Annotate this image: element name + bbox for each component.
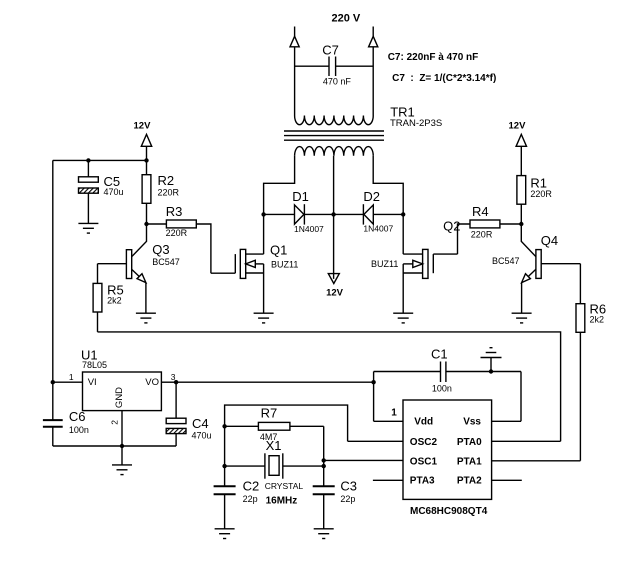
node junction dot left diode row — [261, 212, 265, 216]
wire Q1 drain up to diode row — [263, 214, 265, 254]
wire Q2 source down to ground — [402, 264, 404, 313]
node junction dot VO/Vdd — [371, 380, 375, 384]
node junction dot VO/C4 — [174, 380, 178, 384]
wire Vss pin — [492, 420, 521, 422]
svg-text:C7 : Z= 1/(C*2*3.14*f): C7 : Z= 1/(C*2*3.14*f) — [392, 73, 496, 84]
svg-text:TRAN-2P3S: TRAN-2P3S — [390, 118, 442, 129]
wire C2 bottom lead — [224, 494, 226, 529]
capacitor C6 plates — [43, 420, 63, 427]
svg-text:2k2: 2k2 — [590, 315, 605, 325]
wire Q3 emitter down — [145, 283, 147, 314]
wire secondary center tap — [333, 156, 335, 279]
svg-text:C7: C7 — [322, 43, 339, 58]
transistor Q2 channel bar — [423, 249, 428, 278]
wire Q1 gate lead — [211, 272, 235, 274]
transistor Q3 base bar — [126, 250, 131, 279]
12V down terminal arrow at center tap — [328, 274, 339, 284]
ground U1 — [112, 465, 132, 475]
svg-text:22p: 22p — [243, 494, 258, 504]
capacitor C7 — [295, 57, 374, 77]
svg-text:OSC1: OSC1 — [410, 457, 438, 468]
svg-text:1N4007: 1N4007 — [294, 224, 324, 234]
wire Vss branch vertical — [520, 372, 522, 422]
svg-text:2: 2 — [110, 420, 120, 425]
svg-text:BUZ11: BUZ11 — [371, 259, 398, 269]
node junction dot U1 pin1 — [51, 380, 55, 384]
svg-text:78L05: 78L05 — [82, 360, 107, 370]
wire Q2 source bottom stub — [403, 272, 422, 274]
wire R6 bottom to PTA1 — [579, 332, 581, 461]
diode D2 — [363, 204, 373, 224]
node junction dot X1 left — [222, 464, 226, 468]
ground C2 — [215, 529, 235, 539]
transformer TR1 secondary winding — [295, 147, 374, 156]
svg-text:OSC2: OSC2 — [410, 437, 438, 448]
wire secondary right lead — [373, 156, 403, 215]
wire R7 left stub — [225, 425, 259, 427]
wire OSC1 pin — [324, 459, 403, 461]
svg-text:16MHz: 16MHz — [266, 496, 298, 507]
svg-text:PTA2: PTA2 — [457, 476, 482, 487]
wire R4 to Q2 gate route — [458, 224, 471, 254]
wire R2 bottom stub — [146, 203, 148, 224]
wire Q1 source — [255, 263, 263, 265]
svg-text:D1: D1 — [292, 189, 309, 204]
transistor Q2 source arrow — [413, 260, 423, 267]
svg-text:12V: 12V — [509, 121, 527, 132]
svg-text:PTA1: PTA1 — [457, 457, 482, 468]
wire Vdd branch vertical — [373, 372, 375, 422]
crystal X1 — [225, 453, 324, 478]
capacitor C5 positive plate — [79, 177, 99, 182]
wire U1 pin 2 GND — [121, 411, 123, 446]
svg-text:R7: R7 — [261, 406, 278, 421]
svg-text:1N4007: 1N4007 — [363, 224, 393, 234]
wire Q4 base lead — [541, 263, 580, 265]
wire U1 pin 3 VO — [161, 381, 176, 383]
svg-text:C7: 220nF à 470 nF: C7: 220nF à 470 nF — [388, 52, 479, 63]
svg-text:C4: C4 — [192, 416, 209, 431]
transistor Q3 emitter — [132, 269, 146, 282]
svg-text:220R: 220R — [530, 189, 552, 199]
transformer TR1 core — [284, 131, 384, 140]
wire Q2 gate lead — [433, 253, 457, 255]
svg-text:C6: C6 — [69, 409, 86, 424]
svg-text:R4: R4 — [472, 204, 489, 219]
node junction dot C1 ground — [489, 369, 493, 373]
resistor R2 — [142, 175, 151, 204]
svg-text:Q1: Q1 — [270, 243, 287, 258]
wire R7 right stub — [290, 425, 324, 427]
wire bottom gnd rail — [53, 445, 176, 447]
resistor R6 — [576, 304, 585, 333]
transistor Q2 drain up to diode row — [402, 214, 404, 254]
12V left terminal arrow — [141, 134, 151, 146]
transistor Q4 emitter — [522, 269, 536, 282]
capacitor C5 negative hatched plate — [79, 188, 99, 193]
wire 220V left lead down to transformer primary — [294, 47, 296, 116]
svg-text:VI: VI — [88, 377, 97, 388]
wire secondary left lead — [264, 156, 295, 215]
wire Q2 drain stub — [403, 253, 422, 255]
ground Q3 — [136, 313, 156, 323]
transistor Q1 gate line — [234, 254, 236, 273]
transformer TR1 primary winding — [295, 116, 374, 125]
wire C5 lead bottom — [87, 193, 89, 223]
transistor Q3 collector wire — [132, 224, 147, 257]
220V left terminal arrow — [290, 36, 299, 47]
capacitor C4 top lead — [175, 382, 177, 418]
svg-text:470u: 470u — [192, 431, 212, 441]
wire Q1 drain stub — [246, 253, 264, 255]
svg-text:D2: D2 — [363, 189, 380, 204]
wire PTA2 stub — [492, 479, 522, 481]
wire R5 bottom to bus — [97, 312, 99, 332]
wire 12V left stem — [146, 146, 148, 160]
wire U1 pin 1 — [53, 381, 83, 383]
svg-text:100n: 100n — [69, 425, 89, 435]
IC U2 MC68HC908QT4 box — [403, 400, 492, 499]
node junction dot right diode row — [401, 212, 405, 216]
wire 220V left terminal stem — [294, 27, 296, 37]
node junction dot X1 right — [322, 464, 326, 468]
node junction dot R7 left — [222, 424, 226, 428]
transistor Q4 collector wire — [521, 224, 536, 257]
svg-text:12V: 12V — [134, 120, 152, 131]
capacitor C4 positive plate — [166, 418, 186, 423]
wire Q2 source — [403, 263, 413, 265]
svg-text:BC547: BC547 — [492, 256, 520, 266]
svg-text:100n: 100n — [432, 383, 452, 393]
capacitor C4 negative hatched plate — [166, 428, 186, 433]
svg-text:Q2: Q2 — [443, 219, 460, 234]
wire diode row left — [264, 213, 295, 215]
wire C3 bottom lead — [323, 494, 325, 529]
svg-text:R3: R3 — [166, 204, 183, 219]
svg-text:22p: 22p — [340, 494, 355, 504]
ground Q1 — [254, 313, 274, 323]
resistor R3 — [166, 220, 196, 228]
svg-text:Q4: Q4 — [541, 233, 558, 248]
diode D1 — [295, 204, 305, 224]
svg-text:BC547: BC547 — [152, 257, 180, 267]
resistor R1 — [517, 176, 526, 205]
wire Q4 emitter down — [521, 283, 523, 314]
svg-text:GND: GND — [114, 387, 125, 408]
capacitor C1 — [374, 362, 521, 383]
wire left rail down — [52, 160, 54, 419]
resistor R2 top stub — [146, 160, 148, 174]
svg-text:470 nF: 470 nF — [323, 76, 352, 86]
svg-text:1: 1 — [69, 372, 74, 382]
transistor Q2 gate line — [432, 254, 434, 273]
svg-text:VO: VO — [145, 377, 159, 388]
wire PTA1 — [492, 460, 581, 462]
wire D2 anode right — [373, 213, 403, 215]
svg-text:220R: 220R — [471, 230, 493, 240]
ground C3 — [314, 529, 334, 539]
wire R3 to Q1 gate route — [196, 224, 211, 273]
node junction dot GND net — [120, 444, 124, 448]
wire OSC2 pin — [348, 440, 403, 442]
svg-text:2k2: 2k2 — [107, 296, 122, 306]
wire Q1 source down to ground — [263, 264, 265, 313]
svg-text:PTA0: PTA0 — [457, 437, 482, 448]
svg-text:3: 3 — [171, 372, 176, 382]
svg-text:PTA3: PTA3 — [410, 476, 435, 487]
svg-text:C3: C3 — [340, 479, 357, 494]
wire 12V left horizontal rail — [53, 159, 147, 161]
wire OSC2 route over R7 — [225, 405, 348, 486]
wire PTA3 stub — [373, 479, 403, 481]
wire bottom bus to PTA0 — [98, 332, 561, 441]
ground Q2 — [393, 313, 413, 323]
wire C6 bottom lead — [52, 427, 54, 446]
node junction dot center tap — [331, 212, 335, 216]
12V right terminal arrow — [516, 134, 526, 146]
capacitor C2 plates — [214, 486, 236, 494]
wire Vdd pin — [374, 420, 403, 422]
ground C5 — [78, 223, 98, 233]
wire Q3 base lead — [98, 263, 127, 265]
capacitor C5 lead top — [87, 160, 89, 176]
wire Q1 source bottom stub — [246, 272, 264, 274]
wire PTA0 — [492, 440, 561, 442]
transistor Q1 channel bar — [240, 249, 245, 278]
svg-text:12V: 12V — [326, 288, 344, 299]
svg-text:C2: C2 — [243, 479, 260, 494]
transistor Q4 base bar — [536, 250, 541, 279]
node junction dot R1/R4/Q4 — [519, 222, 523, 226]
wire R3 left stub — [147, 223, 167, 225]
wire VO long to C1 — [176, 381, 374, 383]
ground inverted at C1 — [481, 348, 502, 372]
wire R7/OSC1/C3 vertical — [323, 426, 325, 486]
220V right terminal arrow — [369, 36, 378, 47]
svg-text:220R: 220R — [166, 228, 188, 238]
ground Q4 — [512, 313, 532, 323]
wire center to D2 cathode — [334, 213, 364, 215]
wire U1 ground stem — [121, 446, 123, 465]
wire R4 right stub — [500, 223, 521, 225]
wire center tap stem inside arrow — [333, 274, 335, 279]
svg-text:X1: X1 — [266, 438, 282, 453]
svg-text:CRYSTAL: CRYSTAL — [265, 481, 304, 491]
svg-text:1: 1 — [391, 407, 397, 418]
svg-text:BUZ11: BUZ11 — [271, 260, 298, 270]
node junction dot R2/R3/Q3 — [144, 222, 148, 226]
node junction dot 12V left — [144, 158, 148, 162]
transistor Q1 source arrow — [246, 260, 256, 267]
wire C4 bottom lead — [175, 434, 177, 446]
node junction dot C5 top — [86, 158, 90, 162]
svg-text:MC68HC908QT4: MC68HC908QT4 — [410, 506, 488, 517]
wire R1 bottom stub — [520, 204, 522, 224]
svg-text:220R: 220R — [158, 187, 180, 197]
svg-text:C1: C1 — [431, 346, 448, 361]
op-amp U1 regulator box — [83, 372, 162, 411]
wire D1 cathode to center — [304, 213, 333, 215]
resistor R7 — [258, 422, 290, 430]
node junction dot OSC1 — [322, 458, 326, 462]
wire R6 top stub — [579, 264, 581, 304]
svg-text:470u: 470u — [104, 187, 124, 197]
svg-text:Vss: Vss — [463, 416, 481, 427]
wire 220V right lead down to transformer primary — [372, 47, 374, 116]
wire R5 top stub — [97, 264, 99, 284]
wire 12V right stem — [520, 146, 522, 175]
capacitor C3 plates — [313, 486, 335, 494]
wire 220V right terminal stem — [372, 27, 374, 37]
resistor R5 — [93, 283, 102, 312]
svg-text:Vdd: Vdd — [414, 416, 433, 427]
svg-text:R2: R2 — [158, 173, 175, 188]
resistor R4 — [470, 220, 500, 228]
svg-text:Q3: Q3 — [152, 242, 169, 257]
svg-text:220 V: 220 V — [332, 12, 361, 24]
